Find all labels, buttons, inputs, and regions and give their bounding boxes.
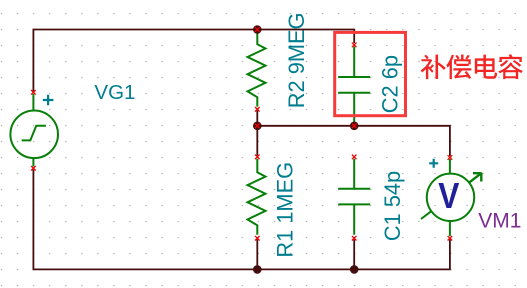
wire: middle row junction to VM1 top	[257, 126, 450, 156]
C1 top pin X	[352, 155, 357, 160]
VG1 ramp waveform symbol	[22, 126, 46, 141]
svg-text:VG1: VG1	[94, 81, 135, 104]
annotation red box around C2	[335, 32, 406, 115]
junction dot node middle cross junction	[253, 122, 262, 131]
VM1 plus polarity mark	[429, 159, 438, 168]
C1 bottom pin X	[352, 236, 357, 241]
VG1 bottom pin X	[31, 166, 36, 171]
capacitor C2 plates and leads	[338, 47, 370, 124]
VM1 top pin	[449, 159, 451, 174]
wire: stub R1 bottom to bottom rail	[256, 240, 258, 270]
junction dot node top R2 junction	[253, 25, 262, 34]
wire: bottom loop VG1 to VM1	[33, 170, 450, 270]
annotation text 补偿电容 (compensation capacitor)	[421, 54, 523, 79]
VG1 top pin X	[31, 90, 36, 95]
junction dot node bottom R1 junction	[253, 265, 262, 274]
VM1 bottom pin X	[448, 236, 453, 241]
resistor R1 zigzag	[248, 159, 266, 235]
wire: stub between R2 bottom and R1 top	[256, 111, 258, 156]
R2 bottom pin X	[255, 107, 260, 112]
wire: VG1 top pin up, across top, down to C2	[33, 30, 354, 93]
VG1 plus polarity mark	[43, 95, 54, 106]
R2 top pin X	[255, 27, 260, 32]
C2 top pin X	[352, 43, 357, 48]
voltmeter VM1 circle	[427, 174, 474, 221]
svg-text:C1 54p: C1 54p	[380, 171, 405, 241]
svg-text:V: V	[438, 176, 459, 216]
junction dot node C2 bottom junction	[350, 122, 359, 131]
cross junction X	[255, 124, 260, 129]
svg-text:C2 6p: C2 6p	[378, 55, 403, 113]
VM1 arrow shaft upper segment with arrowhead	[469, 173, 482, 183]
voltage source VG1 circle	[10, 111, 58, 159]
svg-text:R1 1MEG: R1 1MEG	[273, 162, 298, 258]
junction dot node bottom C1 junction	[350, 265, 359, 274]
svg-text:VM1: VM1	[478, 209, 521, 232]
capacitor C1 plates and leads	[338, 159, 370, 235]
R1 top pin X	[255, 155, 260, 160]
VM1 bottom pin	[449, 221, 451, 236]
VM1 top pin X	[448, 155, 453, 160]
VG1 bottom pin	[32, 158, 34, 167]
VG1 top pin	[32, 94, 34, 111]
R1 bottom pin X	[255, 236, 260, 241]
wire: stub C1 bottom to bottom rail	[353, 240, 355, 270]
svg-text:R2 9MEG: R2 9MEG	[284, 12, 309, 108]
VM1 arrow shaft lower segment	[421, 211, 432, 219]
C2 bottom pin X	[352, 124, 357, 129]
resistor R2 zigzag	[248, 31, 266, 107]
